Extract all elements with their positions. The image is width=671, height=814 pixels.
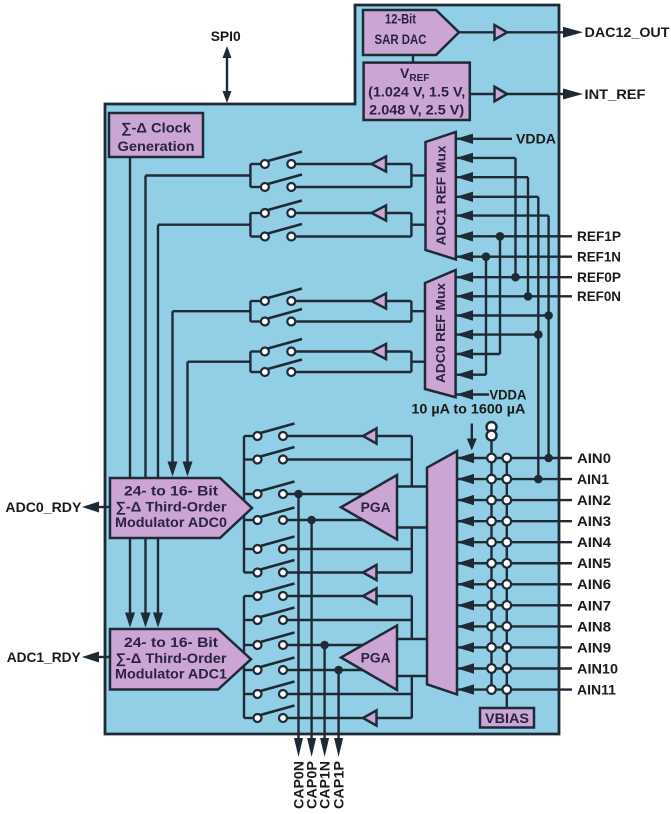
svg-text:AIN11: AIN11: [577, 681, 616, 697]
svg-text:AIN2: AIN2: [577, 492, 611, 508]
svg-text:2.048 V, 2.5 V): 2.048 V, 2.5 V): [369, 102, 464, 117]
svg-text:10 µA to 1600 µA: 10 µA to 1600 µA: [411, 402, 525, 417]
svg-text:AIN8: AIN8: [577, 618, 611, 634]
svg-text:SPI0: SPI0: [211, 28, 241, 44]
svg-text:REF0N: REF0N: [577, 288, 621, 304]
svg-text:PGA: PGA: [361, 500, 391, 515]
svg-text:ADC0 REF Mux: ADC0 REF Mux: [433, 282, 448, 383]
svg-text:AIN10: AIN10: [577, 660, 618, 676]
svg-text:AIN4: AIN4: [577, 534, 611, 550]
svg-text:12-Bit: 12-Bit: [385, 11, 416, 27]
svg-text:AIN1: AIN1: [577, 471, 609, 487]
svg-text:REF1N: REF1N: [577, 249, 621, 265]
svg-text:AIN5: AIN5: [577, 555, 611, 571]
svg-text:AIN7: AIN7: [577, 597, 611, 613]
svg-text:Modulator ADC1: Modulator ADC1: [115, 666, 227, 682]
svg-text:INT_REF: INT_REF: [585, 86, 646, 102]
svg-text:Generation: Generation: [118, 138, 195, 154]
svg-text:CAP1P: CAP1P: [332, 761, 347, 809]
svg-text:SAR DAC: SAR DAC: [375, 31, 427, 47]
svg-text:24- to 16- Bit: 24- to 16- Bit: [124, 483, 218, 499]
svg-text:∑-Δ Third-Order: ∑-Δ Third-Order: [116, 650, 228, 667]
svg-text:Modulator ADC0: Modulator ADC0: [115, 514, 227, 530]
svg-text:VBIAS: VBIAS: [485, 710, 529, 726]
svg-text:AIN9: AIN9: [577, 639, 611, 655]
svg-text:CAP1N: CAP1N: [318, 761, 333, 809]
svg-text:PGA: PGA: [361, 650, 391, 665]
svg-text:24- to 16- Bit: 24- to 16- Bit: [124, 634, 218, 650]
svg-text:AIN3: AIN3: [577, 513, 611, 529]
svg-text:REF1P: REF1P: [577, 228, 621, 244]
svg-text:VDDA: VDDA: [516, 131, 556, 147]
svg-text:REF0P: REF0P: [577, 269, 621, 285]
svg-text:(1.024 V, 1.5 V,: (1.024 V, 1.5 V,: [368, 84, 465, 99]
svg-text:DAC12_OUT: DAC12_OUT: [585, 24, 670, 40]
svg-text:AIN6: AIN6: [577, 576, 611, 592]
svg-text:ADC1 REF Mux: ADC1 REF Mux: [433, 145, 448, 246]
svg-text:AIN0: AIN0: [577, 450, 611, 466]
svg-text:∑-Δ Clock: ∑-Δ Clock: [121, 119, 191, 136]
svg-text:ADC0_RDY: ADC0_RDY: [5, 499, 82, 515]
svg-text:ADC1_RDY: ADC1_RDY: [7, 649, 82, 665]
svg-text:VDDA: VDDA: [489, 386, 526, 402]
